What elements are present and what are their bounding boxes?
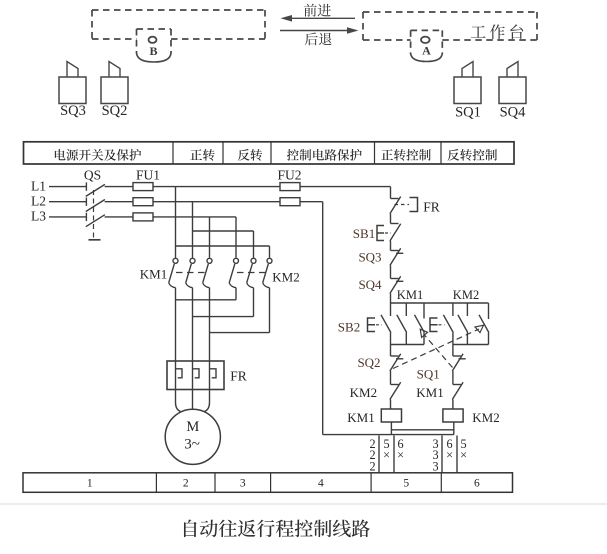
button SB2 operator	[368, 318, 376, 332]
wire SB1-SQ3	[390, 241, 392, 251]
svg-text:QS: QS	[84, 167, 101, 182]
coil KM1	[381, 409, 401, 422]
svg-text:KM2: KM2	[272, 270, 299, 285]
svg-text:SQ4: SQ4	[500, 105, 527, 121]
wire drop L3-KM2a	[235, 217, 237, 258]
wire drop L1-KM1a	[175, 187, 177, 258]
svg-text:FR: FR	[230, 369, 247, 384]
wire L1 FU1-FU2	[153, 186, 280, 188]
svg-text:×: ×	[397, 448, 404, 462]
wire drop L2-KM1b	[192, 202, 194, 258]
fuse FU1 pole 2	[133, 198, 153, 206]
caption 自动往返行程控制线路	[184, 520, 370, 538]
svg-text:KM2: KM2	[472, 410, 499, 425]
svg-text:L1: L1	[31, 178, 46, 193]
switch QS pole 3	[85, 213, 87, 221]
dog B dashed box	[137, 28, 172, 30]
machine bed dashed outline left	[92, 9, 265, 11]
wire cross U	[176, 299, 237, 301]
KM2 linkage dashed	[237, 272, 269, 274]
fuse FU2 pole 2	[280, 198, 300, 206]
coil KM2	[443, 409, 463, 422]
svg-text:2: 2	[369, 459, 375, 473]
switch QS pole 2	[85, 198, 87, 206]
FR heater element 2	[192, 361, 194, 390]
contactor KM1 main contact 2	[190, 258, 195, 263]
dog A bracket arc	[411, 54, 443, 62]
wire KM2a out	[235, 288, 237, 300]
wire L1 QS-FU1	[105, 186, 133, 188]
header cell 反转	[238, 149, 262, 161]
wire branch L2-KM2b	[193, 230, 254, 232]
SB2 NO contact x=390.5	[390, 303, 392, 316]
svg-text:B: B	[149, 44, 157, 58]
contactor KM2 main contact 2	[251, 258, 256, 263]
dog B pin circle	[149, 37, 157, 43]
svg-text:1: 1	[87, 478, 93, 490]
svg-text:2: 2	[183, 478, 189, 490]
interlock KM1 NC contact	[453, 384, 461, 386]
button NO contact (right) x=452.9	[452, 303, 454, 316]
worktable label 工作台	[471, 24, 523, 39]
header cell 电源开关及保护	[55, 149, 141, 161]
SQ2 linkage dashed arrow	[393, 329, 479, 369]
wire L2 FU2-left rail	[300, 201, 323, 203]
contactor KM1 main contact 1	[173, 258, 178, 263]
block bottom bus left	[391, 344, 425, 346]
backward arrow (right)	[280, 30, 353, 32]
block bottom bus right	[453, 344, 489, 346]
svg-text:×: ×	[460, 448, 467, 462]
wire bus-SQ2	[390, 345, 392, 357]
motor lead right	[205, 390, 210, 412]
fuse FU2 pole 1	[280, 183, 300, 191]
FR heater element 1	[175, 361, 177, 390]
wire drop L3-KM1c	[209, 217, 211, 258]
wire L2 QS-FU1	[105, 201, 133, 203]
wire cross V	[193, 316, 254, 318]
left rail from FU2	[322, 202, 324, 435]
svg-text:KM1: KM1	[397, 288, 423, 302]
button SB1 NC	[391, 223, 399, 225]
motor M 3~ circle	[165, 409, 220, 464]
header cell 正转控制	[381, 149, 430, 161]
limit switch SQ4 pictogram	[499, 77, 526, 104]
wire KM1a out	[175, 288, 177, 361]
wire FR-SB1	[390, 214, 392, 224]
header cell 正转	[190, 149, 214, 161]
svg-text:KM1: KM1	[416, 385, 443, 400]
header cell 反转控制	[448, 149, 497, 161]
thermal relay FR box	[167, 361, 224, 390]
svg-text:SQ2: SQ2	[357, 355, 380, 370]
SQ2 NO contact x=488.5	[488, 303, 490, 319]
wire L3 in	[49, 216, 86, 218]
svg-text:KM1: KM1	[347, 410, 374, 425]
svg-text:SQ3: SQ3	[60, 103, 86, 119]
wire SQ4-bus	[390, 294, 392, 304]
bottom return bus	[323, 434, 454, 436]
coil join wire	[391, 429, 453, 431]
svg-text:FR: FR	[423, 200, 440, 215]
wire L3 QS-FU1	[105, 216, 133, 218]
svg-text:KM2: KM2	[453, 288, 479, 302]
SQ1 NO contact x=424.0	[423, 303, 425, 319]
wire L2 FU1-FU2	[153, 201, 280, 203]
svg-text:KM2: KM2	[350, 385, 377, 400]
wire KM2nc-coil	[390, 400, 392, 410]
svg-text:SB2: SB2	[338, 320, 360, 335]
dog A dashed box	[411, 29, 443, 31]
forward arrow (left)	[285, 17, 355, 19]
parallel block top bus	[391, 302, 489, 304]
wire KM1nc-coil	[452, 400, 454, 410]
svg-text:KM1: KM1	[140, 267, 167, 282]
wire SQ2-KM2nc	[390, 371, 392, 385]
wire L3 FU1-end	[153, 216, 236, 218]
motor lead left	[176, 390, 181, 412]
svg-text:4: 4	[318, 478, 324, 490]
wire L2 in	[49, 201, 86, 203]
svg-text:3: 3	[240, 478, 246, 490]
limit switch SQ3 pictogram	[59, 77, 86, 104]
wire KM2c out	[269, 288, 271, 333]
contactor KM1 main contact 3	[207, 258, 212, 263]
svg-text:3~: 3~	[184, 437, 200, 453]
wire KM1b out	[192, 288, 194, 361]
SQ1 linkage dashed arrow	[424, 335, 453, 368]
svg-text:A: A	[422, 44, 431, 58]
button operator (right group)	[430, 318, 438, 332]
limit switch SQ1 pictogram	[454, 77, 481, 104]
motor lead mid	[192, 390, 194, 410]
svg-text:SQ3: SQ3	[358, 250, 381, 265]
QS linkage dashed	[93, 190, 95, 238]
svg-text:SQ4: SQ4	[358, 277, 382, 292]
svg-text:FU1: FU1	[136, 167, 160, 182]
fuse FU1 pole 3	[133, 213, 153, 221]
wire L1 in	[49, 186, 86, 188]
wire bus-SQ1	[452, 345, 454, 357]
limit switch SQ1 NC contact	[453, 355, 461, 357]
svg-text:FU2: FU2	[277, 167, 301, 182]
control rail top	[390, 187, 392, 199]
backward label 后退	[305, 32, 332, 45]
wire L1 FU2-control rail	[300, 186, 391, 188]
svg-text:SQ2: SQ2	[102, 103, 128, 119]
contactor KM2 main contact 3	[267, 258, 272, 263]
svg-text:6: 6	[474, 478, 480, 490]
limit switch SQ4 NC contact	[391, 278, 399, 280]
svg-text:M: M	[186, 419, 199, 435]
KM1 linkage dashed	[176, 272, 209, 274]
svg-text:SB1: SB1	[353, 226, 375, 241]
wire KM1c out	[209, 288, 211, 361]
switch QS pole 1	[85, 182, 87, 190]
dog B bracket arc	[137, 53, 172, 62]
limit switch SQ2 pictogram	[101, 77, 128, 104]
wire KM2 coil bottom	[453, 422, 455, 435]
limit switch SQ3 NC contact	[391, 250, 399, 252]
worktable dashed outline right	[363, 11, 537, 13]
svg-text:5: 5	[403, 478, 409, 490]
wire SQ1-KM1nc	[452, 371, 454, 385]
svg-text:×: ×	[446, 448, 453, 462]
svg-text:×: ×	[383, 448, 390, 462]
wire KM2b out	[253, 288, 255, 317]
svg-text:SQ1: SQ1	[455, 105, 481, 121]
svg-text:L3: L3	[31, 209, 46, 224]
page crease line	[0, 503, 607, 505]
fuse FU1 pole 1	[133, 183, 153, 191]
wire cross W	[210, 332, 270, 334]
svg-text:SQ1: SQ1	[417, 367, 440, 382]
FR heater element 3	[209, 361, 211, 390]
wire KM1 coil bottom	[390, 422, 392, 435]
FR NC contact	[391, 198, 399, 200]
forward label 前进	[304, 4, 331, 17]
QS handle bar	[89, 239, 101, 241]
KM1 self-hold contact x=406.3	[405, 303, 407, 316]
wire SQ3-SQ4	[390, 266, 392, 279]
KM2 self-hold contact x=467.4	[466, 303, 468, 316]
limit switch SQ2 NC contact	[391, 355, 399, 357]
header cell 控制电路保护	[287, 149, 362, 161]
zone header table frame	[24, 142, 515, 164]
interlock KM2 NC contact	[391, 384, 399, 386]
dog A pin circle	[421, 37, 430, 43]
svg-text:3: 3	[432, 459, 438, 473]
wire branch L1-KM2c	[176, 245, 270, 247]
contactor KM2 main contact 1	[234, 258, 239, 263]
zone number table	[23, 473, 513, 493]
svg-text:L2: L2	[31, 193, 46, 208]
wire number tick lines	[378, 436, 380, 473]
